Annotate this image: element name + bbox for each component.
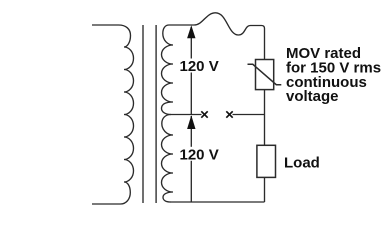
transformer secondary winding top half bbox=[162, 25, 195, 115]
wire MOV bottom to load top bbox=[264, 90, 266, 146]
center tap wire (left segment to break) bbox=[171, 114, 202, 116]
break mark x (left) bbox=[201, 111, 207, 117]
white gap for upper 120 V label bbox=[178, 59, 223, 73]
voltage arrow lower head bbox=[187, 115, 195, 129]
top wire squiggle from secondary to MOV branch bbox=[194, 13, 265, 60]
svg-text:120 V: 120 V bbox=[180, 146, 219, 163]
wire load bottom to bottom rail bbox=[264, 177, 266, 202]
load resistor body bbox=[257, 145, 276, 177]
transformer primary winding lead (top) and coil bbox=[92, 25, 134, 204]
transformer core line (right) bbox=[155, 25, 157, 203]
break mark x (right) bbox=[226, 111, 232, 117]
center tap wire (right segment from break to load branch) bbox=[233, 114, 265, 116]
voltage arrow upper (shaft) bbox=[190, 27, 192, 115]
svg-text:120 V: 120 V bbox=[180, 58, 219, 75]
voltage arrow lower (shaft) bbox=[190, 116, 192, 202]
svg-text:Load: Load bbox=[284, 154, 320, 171]
MOV varistor body bbox=[256, 60, 274, 90]
bottom rail wire bbox=[170, 201, 265, 203]
transformer core line (left) bbox=[142, 25, 144, 203]
transformer secondary winding bottom half bbox=[162, 115, 173, 203]
MOV varistor diagonal stroke bbox=[248, 64, 282, 84]
white gap for lower 120 V label bbox=[178, 147, 223, 161]
voltage arrow upper head bbox=[187, 25, 195, 38]
svg-text:voltage: voltage bbox=[286, 88, 339, 105]
